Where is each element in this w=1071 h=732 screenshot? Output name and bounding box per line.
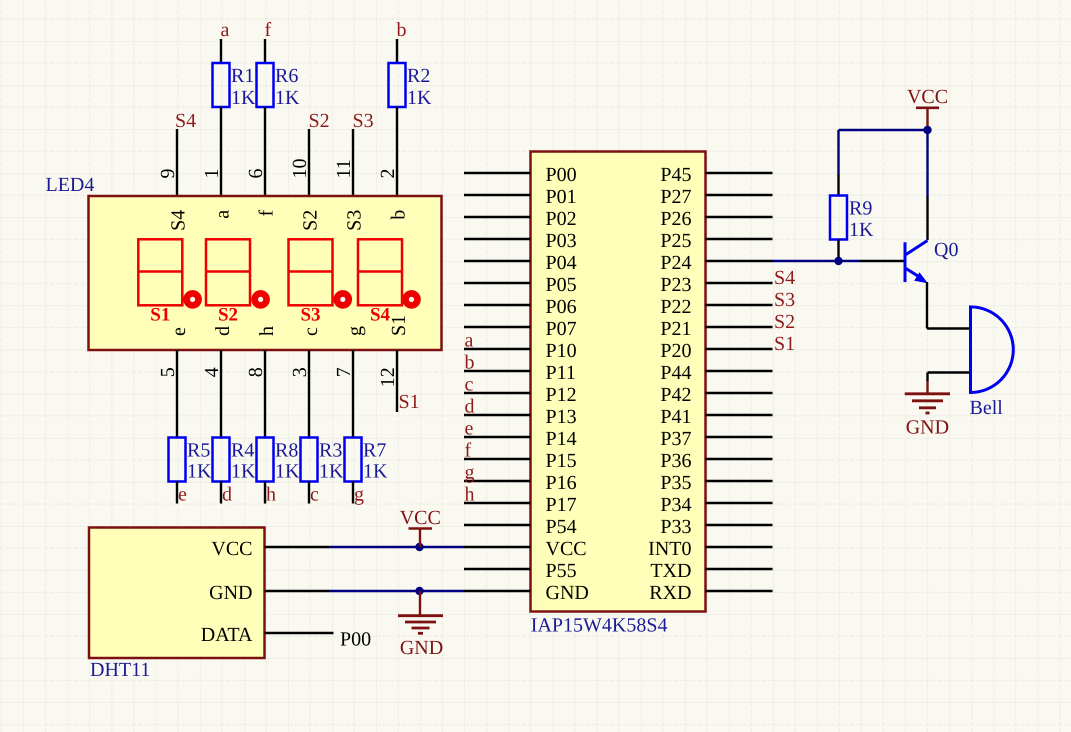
svg-text:GND: GND bbox=[209, 582, 252, 604]
svg-text:f: f bbox=[256, 209, 278, 216]
label Q0 bbox=[934, 239, 958, 261]
label R6 bbox=[275, 65, 298, 87]
MCU left pin wire VCC bbox=[464, 546, 531, 548]
wire VCC to R9 bbox=[837, 130, 839, 174]
transistor Q0 bbox=[905, 241, 928, 284]
MCU right pin wire RXD bbox=[706, 590, 773, 592]
svg-text:2: 2 bbox=[377, 169, 399, 179]
value R9 1K bbox=[849, 219, 874, 241]
MCU left pin wire P15 bbox=[464, 458, 531, 460]
wire LED to R7 bbox=[352, 350, 354, 438]
svg-text:P03: P03 bbox=[546, 230, 577, 252]
wire R3 to net c bbox=[308, 482, 310, 504]
Q0 emitter pin wire bbox=[926, 282, 928, 329]
pin name d (LED bottom) bbox=[212, 326, 234, 336]
MCU right pin wire P25 bbox=[706, 238, 773, 240]
svg-text:P45: P45 bbox=[660, 164, 691, 186]
digit select label S1 bbox=[150, 305, 170, 326]
pin number 8 (LED bottom) bbox=[245, 367, 267, 377]
7-segment digit 3 bbox=[289, 239, 333, 305]
label GND (left) bbox=[400, 637, 443, 659]
MCU pin name P10 bbox=[546, 340, 577, 362]
net label g (below R7) bbox=[354, 484, 364, 506]
svg-text:RXD: RXD bbox=[649, 582, 691, 604]
MCU right pin wire P33 bbox=[706, 524, 773, 526]
svg-text:DHT11: DHT11 bbox=[90, 659, 150, 681]
resistor R2 bbox=[389, 63, 406, 107]
net label e (below R5) bbox=[178, 484, 187, 506]
pin number 12 (LED bottom) bbox=[377, 367, 399, 387]
pin number 9 (LED top) bbox=[157, 169, 179, 179]
pin name S4 (LED top) bbox=[168, 210, 190, 231]
value R3 1K bbox=[319, 461, 344, 483]
MCU right pin wire P42 bbox=[706, 392, 773, 394]
net label f (MCU left) bbox=[465, 440, 472, 462]
label R1 bbox=[231, 65, 254, 87]
MCU left pin wire P10 bbox=[464, 348, 531, 350]
MCU pin name P36 bbox=[660, 450, 691, 472]
svg-text:P11: P11 bbox=[546, 362, 576, 384]
MCU left pin wire P12 bbox=[464, 392, 531, 394]
svg-text:P55: P55 bbox=[546, 560, 577, 582]
svg-text:R5: R5 bbox=[187, 440, 210, 462]
resistor R1 bbox=[213, 63, 230, 107]
svg-text:S3: S3 bbox=[353, 110, 374, 132]
svg-text:c: c bbox=[465, 374, 474, 396]
MCU left pin wire P55 bbox=[464, 568, 531, 570]
label LED4 bbox=[46, 174, 95, 196]
svg-text:8: 8 bbox=[245, 367, 267, 377]
MCU pin name P35 bbox=[660, 472, 691, 494]
7-segment digit 1 bbox=[138, 239, 182, 305]
svg-text:b: b bbox=[465, 352, 475, 374]
svg-text:S3: S3 bbox=[344, 210, 366, 231]
svg-text:P14: P14 bbox=[546, 428, 577, 450]
MCU pin name P45 bbox=[660, 164, 691, 186]
wire LED pin12 net S1 bbox=[396, 350, 398, 412]
svg-text:g: g bbox=[344, 326, 366, 336]
svg-text:3: 3 bbox=[289, 367, 311, 377]
wire base to Q0 bbox=[860, 260, 904, 262]
MCU right pin wire P34 bbox=[706, 502, 773, 504]
MCU left pin wire GND bbox=[464, 590, 531, 592]
svg-text:P33: P33 bbox=[660, 516, 691, 538]
value R4 1K bbox=[231, 461, 256, 483]
net label S3 (MCU right) bbox=[774, 289, 795, 311]
label R9 bbox=[849, 198, 872, 220]
pin number 7 (LED bottom) bbox=[333, 367, 355, 377]
MCU right pin wire P44 bbox=[706, 370, 773, 372]
label R2 bbox=[407, 65, 430, 87]
wire net S3 to LED bbox=[352, 129, 354, 196]
net label S4 (top) bbox=[175, 110, 196, 132]
MCU pin name RXD bbox=[649, 582, 691, 604]
label Bell bbox=[970, 397, 1004, 419]
svg-text:P06: P06 bbox=[546, 296, 577, 318]
svg-text:9: 9 bbox=[157, 169, 179, 179]
net label c (MCU left) bbox=[465, 374, 474, 396]
net label S4 (MCU right) bbox=[774, 267, 795, 289]
svg-text:P20: P20 bbox=[660, 340, 691, 362]
resistor R7 bbox=[345, 438, 362, 482]
wire R4 to net d bbox=[220, 482, 222, 504]
decimal point ring 2 bbox=[255, 293, 267, 305]
svg-text:INT0: INT0 bbox=[648, 538, 691, 560]
resistor R6 bbox=[257, 63, 274, 107]
MCU right pin wire P41 bbox=[706, 414, 773, 416]
MCU pin name P34 bbox=[660, 494, 691, 516]
svg-text:10: 10 bbox=[289, 159, 311, 179]
MCU left pin wire P13 bbox=[464, 414, 531, 416]
svg-text:1K: 1K bbox=[275, 87, 300, 109]
MCU pin name P14 bbox=[546, 428, 577, 450]
svg-text:P00: P00 bbox=[340, 629, 371, 651]
svg-text:S2: S2 bbox=[218, 305, 238, 326]
DHT11 pin name VCC bbox=[211, 538, 252, 560]
resistor R9 bbox=[830, 196, 847, 240]
svg-text:P42: P42 bbox=[660, 384, 691, 406]
svg-text:S2: S2 bbox=[300, 210, 322, 231]
MCU pin name P00 bbox=[546, 164, 577, 186]
net label S2 (MCU right) bbox=[774, 311, 795, 333]
pin name a (LED top) bbox=[212, 210, 234, 219]
decimal point ring 4 bbox=[406, 293, 418, 305]
svg-text:P15: P15 bbox=[546, 450, 577, 472]
svg-text:R3: R3 bbox=[319, 440, 342, 462]
wire R8 to net h bbox=[264, 482, 266, 504]
label R5 bbox=[187, 440, 210, 462]
pin name S1 (LED bottom) bbox=[388, 315, 410, 336]
MCU left pin wire P00 bbox=[464, 172, 531, 174]
MCU right pin wire P22 bbox=[706, 304, 773, 306]
MCU right pin wire P36 bbox=[706, 458, 773, 460]
MCU pin name P37 bbox=[660, 428, 691, 450]
svg-text:R6: R6 bbox=[275, 65, 298, 87]
label R4 bbox=[231, 440, 254, 462]
MCU right pin wire P23 bbox=[706, 282, 773, 284]
svg-text:1: 1 bbox=[201, 169, 223, 179]
svg-text:1K: 1K bbox=[231, 461, 256, 483]
pin number 5 (LED bottom) bbox=[157, 367, 179, 377]
wire VCC to Q0 collector bbox=[926, 130, 928, 196]
net label S2 (top) bbox=[309, 110, 330, 132]
pin name h (LED bottom) bbox=[256, 326, 278, 336]
MCU left pin wire P16 bbox=[464, 480, 531, 482]
svg-text:VCC: VCC bbox=[907, 86, 948, 108]
MCU pin name P41 bbox=[660, 406, 691, 428]
MCU pin name P20 bbox=[660, 340, 691, 362]
svg-text:R2: R2 bbox=[407, 65, 430, 87]
MCU pin name INT0 bbox=[648, 538, 691, 560]
svg-text:P07: P07 bbox=[546, 318, 577, 340]
MCU pin name P44 bbox=[660, 362, 691, 384]
value R7 1K bbox=[363, 461, 388, 483]
svg-text:S4: S4 bbox=[168, 210, 190, 231]
svg-text:g: g bbox=[354, 484, 364, 506]
MCU pin name P03 bbox=[546, 230, 577, 252]
svg-text:a: a bbox=[221, 19, 230, 41]
svg-text:S1: S1 bbox=[399, 391, 420, 413]
svg-text:GND: GND bbox=[400, 637, 443, 659]
LED4 display body bbox=[89, 196, 442, 350]
wire LED to R5 bbox=[176, 350, 178, 438]
ground symbol (left) bbox=[398, 591, 443, 633]
ground symbol (right) bbox=[905, 381, 950, 413]
MCU right pin wire P20 bbox=[706, 348, 773, 350]
MCU pin name P21 bbox=[660, 318, 691, 340]
junction VCC node bbox=[415, 543, 423, 551]
wire net S2 to LED bbox=[308, 129, 310, 196]
svg-text:c: c bbox=[310, 484, 319, 506]
svg-text:P00: P00 bbox=[546, 164, 577, 186]
wire R9 bottom pin bbox=[837, 240, 839, 262]
MCU left pin wire P17 bbox=[464, 502, 531, 504]
value R5 1K bbox=[187, 461, 212, 483]
wire net a upper bbox=[220, 39, 222, 63]
svg-text:S3: S3 bbox=[774, 289, 795, 311]
net label g (MCU left) bbox=[465, 462, 475, 484]
svg-text:GND: GND bbox=[906, 417, 949, 439]
svg-text:c: c bbox=[300, 327, 322, 336]
svg-text:LED4: LED4 bbox=[46, 174, 95, 196]
net label a (top) bbox=[221, 19, 230, 41]
svg-text:b: b bbox=[397, 19, 407, 41]
net label e (MCU left) bbox=[465, 418, 474, 440]
wire LED to R8 bbox=[264, 350, 266, 438]
svg-text:P34: P34 bbox=[660, 494, 691, 516]
svg-text:S2: S2 bbox=[774, 311, 795, 333]
MCU left pin wire P05 bbox=[464, 282, 531, 284]
svg-text:VCC: VCC bbox=[400, 507, 441, 529]
wire VCC rail horizontal bbox=[839, 129, 928, 131]
MCU pin name P27 bbox=[660, 186, 691, 208]
svg-text:S1: S1 bbox=[150, 305, 170, 326]
svg-text:VCC: VCC bbox=[546, 538, 587, 560]
MCU pin name P23 bbox=[660, 274, 691, 296]
net label d (MCU left) bbox=[465, 396, 475, 418]
net label b (MCU left) bbox=[465, 352, 475, 374]
svg-text:1K: 1K bbox=[849, 219, 874, 241]
svg-text:Bell: Bell bbox=[970, 397, 1004, 419]
wire DHT11 GND blue bbox=[329, 590, 464, 592]
wire net f upper bbox=[264, 39, 266, 63]
svg-text:P36: P36 bbox=[660, 450, 691, 472]
MCU pin name P24 bbox=[660, 252, 691, 274]
MCU right pin wire P37 bbox=[706, 436, 773, 438]
pin number 4 (LED bottom) bbox=[201, 367, 223, 377]
MCU pin name P13 bbox=[546, 406, 577, 428]
label GND (right) bbox=[906, 417, 949, 439]
net label S1 (LED bottom) bbox=[399, 391, 420, 413]
wire R6 to LED pin f bbox=[264, 107, 266, 196]
wire R7 to net g bbox=[352, 482, 354, 504]
MCU pin name TXD bbox=[650, 560, 691, 582]
svg-text:S1: S1 bbox=[774, 333, 795, 355]
svg-text:g: g bbox=[465, 462, 475, 484]
svg-text:P17: P17 bbox=[546, 494, 577, 516]
MCU pin name P11 bbox=[546, 362, 576, 384]
svg-text:R9: R9 bbox=[849, 198, 872, 220]
svg-text:R1: R1 bbox=[231, 65, 254, 87]
svg-text:P35: P35 bbox=[660, 472, 691, 494]
net label a (MCU left) bbox=[465, 330, 474, 352]
7-segment digit 2 bbox=[206, 239, 250, 305]
pin number 1 (LED top) bbox=[201, 169, 223, 179]
svg-text:1K: 1K bbox=[407, 87, 432, 109]
pin number 6 (LED top) bbox=[245, 169, 267, 179]
value R1 1K bbox=[231, 87, 256, 109]
svg-text:a: a bbox=[212, 210, 234, 219]
DHT11 pin name GND bbox=[209, 582, 252, 604]
MCU right pin wire P26 bbox=[706, 216, 773, 218]
net VCC symbol (right) bbox=[907, 86, 948, 130]
MCU pin name GND bbox=[546, 582, 589, 604]
MCU right pin wire P35 bbox=[706, 480, 773, 482]
svg-text:P23: P23 bbox=[660, 274, 691, 296]
MCU left pin wire P01 bbox=[464, 194, 531, 196]
svg-text:d: d bbox=[222, 484, 232, 506]
net label c (below R3) bbox=[310, 484, 319, 506]
MCU right pin wire P24 bbox=[706, 260, 773, 262]
MCU pin name P12 bbox=[546, 384, 577, 406]
label R3 bbox=[319, 440, 342, 462]
junction GND node bbox=[415, 587, 423, 595]
svg-text:P24: P24 bbox=[660, 252, 691, 274]
wire bell to ground bbox=[928, 373, 970, 382]
net label S3 (top) bbox=[353, 110, 374, 132]
resistor R4 bbox=[213, 438, 230, 482]
bell LS1 bbox=[971, 307, 1014, 393]
MCU left pin wire P14 bbox=[464, 436, 531, 438]
MCU left pin wire P07 bbox=[464, 326, 531, 328]
MCU pin name VCC bbox=[546, 538, 587, 560]
svg-text:P04: P04 bbox=[546, 252, 577, 274]
MCU pin name P54 bbox=[546, 516, 577, 538]
value R8 1K bbox=[275, 461, 300, 483]
svg-text:b: b bbox=[388, 210, 410, 220]
wire R5 to net e bbox=[176, 482, 178, 504]
pin number 3 (LED bottom) bbox=[289, 367, 311, 377]
wire P24 net blue segment bbox=[773, 260, 861, 262]
svg-text:a: a bbox=[465, 330, 474, 352]
svg-text:4: 4 bbox=[201, 367, 223, 377]
value R2 1K bbox=[407, 87, 432, 109]
net VCC symbol (left) bbox=[400, 507, 441, 547]
wire DHT11 VCC black bbox=[265, 546, 330, 548]
svg-text:P01: P01 bbox=[546, 186, 577, 208]
resistor R3 bbox=[301, 438, 318, 482]
Q0 collector pin wire bbox=[926, 196, 928, 240]
svg-text:e: e bbox=[465, 418, 474, 440]
pin number 10 (LED top) bbox=[289, 159, 311, 179]
svg-text:12: 12 bbox=[377, 367, 399, 387]
svg-text:e: e bbox=[168, 327, 190, 336]
wire R1 to LED pin a bbox=[220, 107, 222, 196]
label R7 bbox=[363, 440, 386, 462]
pin name b (LED top) bbox=[388, 210, 410, 220]
svg-text:5: 5 bbox=[157, 367, 179, 377]
MCU pin name P15 bbox=[546, 450, 577, 472]
MCU pin name P01 bbox=[546, 186, 577, 208]
MCU left pin wire P06 bbox=[464, 304, 531, 306]
resistor R8 bbox=[257, 438, 274, 482]
svg-text:GND: GND bbox=[546, 582, 589, 604]
MCU pin name P05 bbox=[546, 274, 577, 296]
MCU left pin wire P11 bbox=[464, 370, 531, 372]
decimal point ring 1 bbox=[187, 293, 199, 305]
DHT11 sensor body bbox=[89, 528, 265, 659]
net label f (top) bbox=[265, 19, 272, 41]
svg-text:S4: S4 bbox=[774, 267, 795, 289]
pin number 11 (LED top) bbox=[333, 159, 355, 178]
resistor R5 bbox=[169, 438, 186, 482]
svg-text:P16: P16 bbox=[546, 472, 577, 494]
MCU right pin wire P21 bbox=[706, 326, 773, 328]
wire LED to R4 bbox=[220, 350, 222, 438]
pin name S3 (LED top) bbox=[344, 210, 366, 231]
net label S1 (MCU right) bbox=[774, 333, 795, 355]
svg-text:P25: P25 bbox=[660, 230, 691, 252]
svg-text:R4: R4 bbox=[231, 440, 254, 462]
pin name S2 (LED top) bbox=[300, 210, 322, 231]
svg-text:h: h bbox=[465, 484, 475, 506]
wire net S4 to LED bbox=[176, 129, 178, 196]
svg-text:6: 6 bbox=[245, 169, 267, 179]
MCU left pin wire P54 bbox=[464, 524, 531, 526]
wire R2 to LED pin b bbox=[396, 107, 398, 196]
pin name g (LED bottom) bbox=[344, 326, 366, 336]
svg-text:P54: P54 bbox=[546, 516, 577, 538]
digit select label S2 bbox=[218, 305, 238, 326]
MCU pin name P22 bbox=[660, 296, 691, 318]
svg-text:P41: P41 bbox=[660, 406, 691, 428]
svg-text:R8: R8 bbox=[275, 440, 298, 462]
svg-text:P37: P37 bbox=[660, 428, 691, 450]
svg-text:R7: R7 bbox=[363, 440, 386, 462]
MCU IAP15W4K58S4 body U1 bbox=[531, 152, 706, 612]
svg-text:e: e bbox=[178, 484, 187, 506]
svg-text:11: 11 bbox=[333, 159, 355, 178]
label DHT11 bbox=[90, 659, 150, 681]
net label P00 bbox=[340, 629, 371, 651]
MCU pin name P25 bbox=[660, 230, 691, 252]
net label d (below R4) bbox=[222, 484, 232, 506]
svg-text:S4: S4 bbox=[175, 110, 196, 132]
wire net b upper bbox=[396, 39, 398, 63]
svg-text:P22: P22 bbox=[660, 296, 691, 318]
MCU right pin wire P27 bbox=[706, 194, 773, 196]
MCU pin name P26 bbox=[660, 208, 691, 230]
wire R9 top pin bbox=[837, 174, 839, 196]
MCU right pin wire TXD bbox=[706, 568, 773, 570]
net label h (MCU left) bbox=[465, 484, 475, 506]
svg-text:P02: P02 bbox=[546, 208, 577, 230]
svg-text:IAP15W4K58S4: IAP15W4K58S4 bbox=[531, 615, 668, 637]
wire DHT11 DATA bbox=[265, 632, 334, 634]
digit select label S4 bbox=[370, 305, 391, 326]
decimal point ring 3 bbox=[337, 293, 349, 305]
svg-text:d: d bbox=[212, 326, 234, 336]
svg-text:1K: 1K bbox=[275, 461, 300, 483]
net label b (top) bbox=[397, 19, 407, 41]
svg-text:P10: P10 bbox=[546, 340, 577, 362]
MCU pin name P07 bbox=[546, 318, 577, 340]
MCU pin name P16 bbox=[546, 472, 577, 494]
svg-text:P21: P21 bbox=[660, 318, 691, 340]
svg-text:TXD: TXD bbox=[650, 560, 691, 582]
svg-text:1K: 1K bbox=[363, 461, 388, 483]
pin name f (LED top) bbox=[256, 209, 278, 216]
